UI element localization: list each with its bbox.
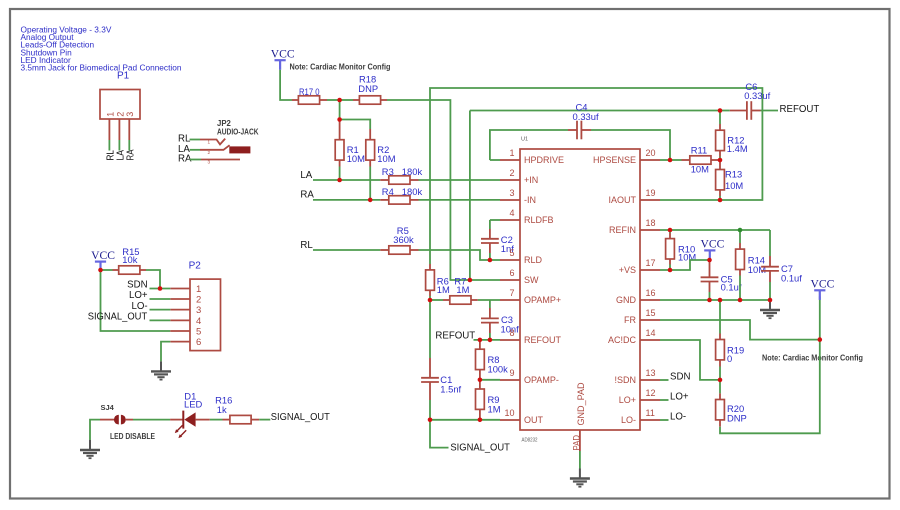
svg-text:4: 4 bbox=[196, 316, 201, 327]
svg-text:6: 6 bbox=[196, 337, 201, 348]
svg-text:12: 12 bbox=[646, 388, 656, 398]
wire R15 to P2 pin1 bbox=[146, 270, 160, 289]
svg-text:HPSENSE: HPSENSE bbox=[593, 155, 636, 165]
capacitor C2 bbox=[481, 220, 514, 260]
junction R19-R20-AC!DC bbox=[718, 378, 723, 383]
svg-text:2: 2 bbox=[196, 294, 201, 305]
wire junction down to R1 R2 bbox=[339, 100, 341, 120]
capacitor C1 bbox=[421, 300, 461, 420]
svg-text:5: 5 bbox=[509, 248, 514, 258]
pin PAD of U1 bbox=[571, 430, 581, 451]
junction SW-C6-R12 bbox=[718, 108, 723, 113]
svg-text:180k: 180k bbox=[402, 186, 423, 197]
resistor R2 bbox=[366, 129, 396, 167]
svg-text:REFOUT: REFOUT bbox=[780, 104, 820, 115]
wire P2 pin6 to ground bbox=[161, 342, 170, 362]
capacitor C4 bbox=[490, 102, 670, 160]
svg-text:13: 13 bbox=[646, 368, 656, 378]
svg-text:19: 19 bbox=[646, 188, 656, 198]
svg-text:REFOUT: REFOUT bbox=[524, 335, 562, 345]
resistor R3 bbox=[380, 166, 422, 184]
wire SJ4 to LED bbox=[133, 419, 170, 421]
wire P1 pin 1 net RL bbox=[106, 140, 117, 161]
VCC supply at P2 bbox=[91, 249, 115, 271]
svg-text:2: 2 bbox=[208, 150, 211, 155]
svg-text:!SDN: !SDN bbox=[614, 375, 636, 385]
svg-text:GND_PAD: GND_PAD bbox=[576, 382, 586, 426]
svg-text:10: 10 bbox=[504, 408, 514, 418]
wire REFOUT to pin8 bbox=[474, 339, 501, 341]
svg-text:SJ4: SJ4 bbox=[101, 403, 115, 412]
svg-text:+IN: +IN bbox=[524, 175, 538, 185]
svg-text:10M: 10M bbox=[678, 252, 696, 263]
wire junction to R2 top bbox=[340, 120, 371, 130]
svg-text:180k: 180k bbox=[402, 166, 423, 177]
svg-text:SDN: SDN bbox=[670, 371, 690, 382]
svg-text:6: 6 bbox=[509, 268, 514, 278]
svg-text:1M: 1M bbox=[488, 403, 501, 414]
resistor R7 bbox=[430, 275, 478, 304]
connector P2 bbox=[170, 261, 220, 351]
svg-text:10k: 10k bbox=[122, 254, 137, 265]
capacitor C3 bbox=[481, 300, 519, 340]
wire R3 to pin2 bbox=[419, 179, 501, 181]
svg-text:14: 14 bbox=[646, 328, 656, 338]
resistor R18 bbox=[353, 74, 387, 105]
junction R8 top bbox=[478, 338, 483, 343]
svg-text:U1: U1 bbox=[521, 137, 528, 143]
junction R6-R7-C1 bbox=[428, 298, 433, 303]
svg-text:DNP: DNP bbox=[358, 83, 378, 94]
svg-text:LED: LED bbox=[184, 399, 202, 410]
svg-text:OUT: OUT bbox=[524, 415, 544, 425]
ground at SJ4 bbox=[80, 440, 100, 458]
svg-text:VCC: VCC bbox=[810, 278, 834, 291]
wire VCC down to P2 pin5 bbox=[101, 270, 171, 331]
svg-text:RA: RA bbox=[125, 149, 136, 160]
resistor R20 bbox=[716, 380, 747, 427]
svg-text:1.5nf: 1.5nf bbox=[440, 384, 461, 395]
svg-text:Note: Cardiac Monitor Config: Note: Cardiac Monitor Config bbox=[762, 353, 863, 362]
svg-text:VCC: VCC bbox=[91, 249, 115, 262]
svg-text:LO+: LO+ bbox=[129, 290, 148, 301]
svg-text:4: 4 bbox=[509, 208, 514, 218]
wire VCC to R15 and pin5 bbox=[100, 270, 102, 271]
junction R15-SDN-pin1 bbox=[158, 286, 163, 291]
svg-text:VCC: VCC bbox=[700, 238, 724, 251]
svg-text:REFOUT: REFOUT bbox=[435, 331, 475, 342]
wire pin13 stub and net label SDN bbox=[660, 379, 669, 381]
wire pin18 REFIN net bbox=[660, 229, 770, 231]
ground below U1 bbox=[570, 469, 590, 487]
svg-text:+VS: +VS bbox=[619, 265, 636, 275]
wire P1 pin 3 net RA bbox=[125, 140, 136, 161]
svg-text:7: 7 bbox=[509, 288, 514, 298]
resistor R13 bbox=[716, 160, 744, 200]
junction C1 bottom on OUT bbox=[428, 418, 433, 423]
wire OUT to SIGNAL_OUT label bbox=[430, 420, 449, 448]
resistor R1 bbox=[335, 120, 365, 167]
info text block bbox=[21, 25, 182, 73]
svg-text:SIGNAL_OUT: SIGNAL_OUT bbox=[450, 442, 510, 453]
svg-text:0: 0 bbox=[727, 353, 732, 364]
svg-text:3.5mm Jack for Biomedical Pad: 3.5mm Jack for Biomedical Pad Connection bbox=[21, 63, 182, 73]
junction R14 top green bbox=[738, 228, 743, 233]
svg-text:3: 3 bbox=[125, 112, 135, 117]
svg-text:-IN: -IN bbox=[524, 195, 536, 205]
wire junction to R18 bbox=[340, 99, 353, 101]
wire LED row to ground bbox=[90, 420, 100, 440]
svg-text:HPDRIVE: HPDRIVE bbox=[524, 155, 564, 165]
svg-text:SDN: SDN bbox=[127, 280, 147, 291]
svg-text:AUDIO-JACK: AUDIO-JACK bbox=[217, 128, 259, 137]
wire C4 to pin1 bbox=[490, 159, 500, 161]
svg-text:RL: RL bbox=[300, 240, 313, 251]
wire R20 bottom to VCC right column bbox=[720, 296, 820, 433]
wire R7 to pin7 bbox=[478, 299, 500, 301]
svg-text:2: 2 bbox=[509, 168, 514, 178]
svg-text:11: 11 bbox=[646, 408, 655, 418]
wire RL to R5 bbox=[313, 249, 380, 251]
svg-text:5: 5 bbox=[196, 326, 201, 337]
svg-text:R4: R4 bbox=[382, 186, 394, 197]
junction C3 bottom bbox=[488, 338, 493, 343]
wire pin12 stub and net label LO+ bbox=[660, 399, 669, 401]
svg-text:LA: LA bbox=[300, 170, 312, 181]
resistor R16 bbox=[215, 395, 259, 424]
svg-text:OPAMP-: OPAMP- bbox=[524, 375, 559, 385]
svg-text:100k: 100k bbox=[488, 364, 509, 375]
wire R2 to RA bbox=[369, 167, 371, 200]
svg-text:3: 3 bbox=[509, 188, 514, 198]
wire R4 to pin3 bbox=[419, 199, 501, 201]
wire R18 to SW junction bbox=[387, 100, 470, 280]
junction C7 bottom gnd bbox=[768, 298, 773, 303]
audio jack JP2 bbox=[200, 119, 259, 165]
svg-text:1: 1 bbox=[105, 112, 115, 117]
svg-text:1k: 1k bbox=[217, 404, 227, 415]
svg-text:IAOUT: IAOUT bbox=[608, 195, 636, 205]
wire R17 to junction bbox=[327, 99, 340, 101]
junction R13 bottom on IAOUT bbox=[718, 198, 723, 203]
resistor R15 bbox=[101, 246, 147, 274]
wire SW to C6/R12 junction bbox=[470, 110, 720, 112]
wire PAD to ground bbox=[579, 451, 581, 469]
svg-text:R11: R11 bbox=[691, 144, 708, 155]
junction C2-RLD bbox=[488, 258, 493, 263]
svg-text:SIGNAL_OUT: SIGNAL_OUT bbox=[271, 412, 330, 423]
svg-text:1M: 1M bbox=[437, 284, 450, 295]
svg-text:10M: 10M bbox=[377, 153, 395, 164]
junction VCC-C5 bbox=[707, 258, 712, 263]
junction C4-HPSENSE bbox=[668, 158, 673, 163]
junction R14 bottom bbox=[738, 298, 743, 303]
svg-text:10M: 10M bbox=[347, 153, 365, 164]
svg-text:18: 18 bbox=[646, 218, 656, 228]
junction R10 bottom on +VS bbox=[668, 268, 673, 273]
ground at P2 bbox=[151, 361, 171, 379]
ground right of U1 bbox=[760, 300, 780, 318]
svg-text:LO+: LO+ bbox=[619, 395, 636, 405]
svg-text:AD8232: AD8232 bbox=[522, 438, 538, 444]
svg-text:1.4M: 1.4M bbox=[727, 143, 748, 154]
capacitor C7 bbox=[761, 230, 802, 300]
resistor R10 bbox=[666, 230, 697, 270]
wire R6 to junction bbox=[429, 296, 431, 300]
svg-text:VCC: VCC bbox=[271, 47, 295, 60]
svg-text:P2: P2 bbox=[189, 261, 202, 272]
svg-text:0.33uf: 0.33uf bbox=[573, 111, 599, 122]
junction R2 bottom on RA bbox=[368, 198, 373, 203]
svg-text:R13: R13 bbox=[725, 169, 742, 180]
svg-text:360k: 360k bbox=[393, 234, 414, 245]
svg-text:OPAMP+: OPAMP+ bbox=[524, 295, 561, 305]
svg-text:LO-: LO- bbox=[131, 301, 147, 312]
svg-text:SIGNAL_OUT: SIGNAL_OUT bbox=[88, 312, 148, 323]
svg-text:3: 3 bbox=[208, 160, 211, 165]
resistor R19 bbox=[716, 300, 745, 380]
resistor R9 bbox=[476, 380, 501, 420]
junction R1 bottom on LA bbox=[337, 178, 342, 183]
svg-text:2: 2 bbox=[115, 112, 125, 117]
svg-text:0.33uf: 0.33uf bbox=[744, 90, 770, 101]
svg-text:R17 0: R17 0 bbox=[299, 86, 320, 97]
wire IAOUT long net down to R6 bbox=[430, 88, 762, 264]
svg-text:REFIN: REFIN bbox=[609, 225, 636, 235]
svg-text:10M: 10M bbox=[691, 163, 709, 174]
resistor R17 bbox=[292, 86, 327, 104]
resistor R14 bbox=[736, 230, 767, 300]
svg-text:1: 1 bbox=[208, 140, 211, 145]
svg-text:3: 3 bbox=[196, 305, 201, 316]
svg-text:Note: Cardiac Monitor Config: Note: Cardiac Monitor Config bbox=[290, 63, 391, 72]
svg-text:16: 16 bbox=[646, 288, 656, 298]
resistor R5 bbox=[380, 225, 418, 254]
resistor R4 bbox=[380, 186, 422, 204]
wire pin15 FR to VCC column bbox=[660, 320, 820, 340]
svg-text:1M: 1M bbox=[456, 284, 469, 295]
wire pin19 IAOUT bbox=[660, 199, 720, 201]
op-amp IC U1 AD8232 bbox=[500, 137, 660, 444]
svg-text:0.1uf: 0.1uf bbox=[781, 273, 802, 284]
solder jumper SJ4 bbox=[100, 403, 156, 441]
svg-text:AC!DC: AC!DC bbox=[608, 335, 637, 345]
wire LA to R3 bbox=[313, 179, 380, 181]
junction C5 bottom bbox=[707, 298, 712, 303]
junction R1-R2 top bbox=[337, 117, 342, 122]
wire OUT row bbox=[430, 419, 500, 421]
resistor R6 bbox=[426, 88, 763, 296]
junction SW bbox=[468, 278, 473, 283]
VCC supply top-left bbox=[271, 47, 295, 69]
svg-text:P1: P1 bbox=[117, 71, 130, 82]
wire junction to pin9 bbox=[480, 379, 500, 381]
svg-text:DNP: DNP bbox=[727, 412, 747, 423]
junction R19 tap bbox=[718, 298, 723, 303]
wire P1 pin 2 net LA bbox=[116, 140, 127, 161]
wire pin14 AC!DC down to junction bbox=[660, 340, 720, 380]
wire VCC to R17 bbox=[280, 70, 292, 100]
svg-text:LO-: LO- bbox=[621, 415, 636, 425]
svg-text:15: 15 bbox=[646, 308, 656, 318]
svg-text:1: 1 bbox=[196, 284, 201, 295]
wire LED to R16 bbox=[210, 419, 223, 421]
junction VCC-R15-pin5 net bbox=[98, 268, 103, 273]
junction R17-R18-R1R2 bbox=[337, 98, 342, 103]
wire pin16 GND row bbox=[660, 299, 770, 301]
junction FR-VCC column bbox=[818, 337, 823, 342]
wire RA to R4 bbox=[313, 199, 380, 201]
VCC supply center bbox=[700, 238, 724, 260]
resistor R12 bbox=[716, 111, 748, 161]
svg-text:10M: 10M bbox=[725, 180, 743, 191]
wire R16 to SIGNAL_OUT label bbox=[259, 419, 270, 421]
wire R1 to LA bbox=[339, 167, 341, 181]
svg-text:20: 20 bbox=[646, 148, 656, 158]
svg-text:8: 8 bbox=[509, 328, 514, 338]
junction R10 top bbox=[668, 228, 673, 233]
svg-text:SW: SW bbox=[524, 275, 539, 285]
wire pin4 to C2 bbox=[490, 219, 500, 221]
junction R8-R9 pin9 bbox=[478, 378, 483, 383]
svg-text:RLD: RLD bbox=[524, 255, 543, 265]
wire pin20 to R11 bbox=[660, 159, 670, 161]
VCC supply right bbox=[810, 278, 834, 300]
resistor R11 bbox=[682, 144, 721, 174]
svg-text:LO+: LO+ bbox=[670, 391, 689, 402]
svg-text:RA: RA bbox=[300, 190, 314, 201]
junction R9 bottom on OUT bbox=[478, 418, 483, 423]
wire pin11 stub and net label LO- bbox=[660, 419, 669, 421]
LED D1 bbox=[170, 390, 210, 438]
svg-text:1: 1 bbox=[509, 148, 514, 158]
resistor R8 bbox=[476, 340, 509, 380]
svg-text:LED DISABLE: LED DISABLE bbox=[110, 432, 156, 441]
svg-text:PAD: PAD bbox=[571, 435, 581, 451]
wire junction to pin5 bbox=[490, 259, 500, 261]
svg-text:R3: R3 bbox=[382, 166, 394, 177]
wire pin17 +VS bbox=[660, 260, 710, 270]
wire R5 to RLD junction bbox=[419, 250, 490, 260]
svg-text:17: 17 bbox=[646, 258, 656, 268]
svg-text:RLDFB: RLDFB bbox=[524, 215, 554, 225]
svg-text:0.1uf: 0.1uf bbox=[721, 282, 742, 293]
svg-text:FR: FR bbox=[624, 315, 636, 325]
wire SW junction to pin6 bbox=[470, 279, 500, 281]
svg-text:GND: GND bbox=[616, 295, 637, 305]
svg-text:LO-: LO- bbox=[670, 411, 686, 422]
junction R11-R12-R13 bbox=[718, 158, 723, 163]
svg-text:9: 9 bbox=[509, 368, 514, 378]
wire SW vertical net bbox=[469, 111, 471, 281]
capacitor C5 bbox=[701, 260, 742, 300]
connector P1 bbox=[100, 71, 140, 141]
svg-text:10M: 10M bbox=[748, 264, 766, 275]
capacitor C6 bbox=[720, 81, 778, 120]
